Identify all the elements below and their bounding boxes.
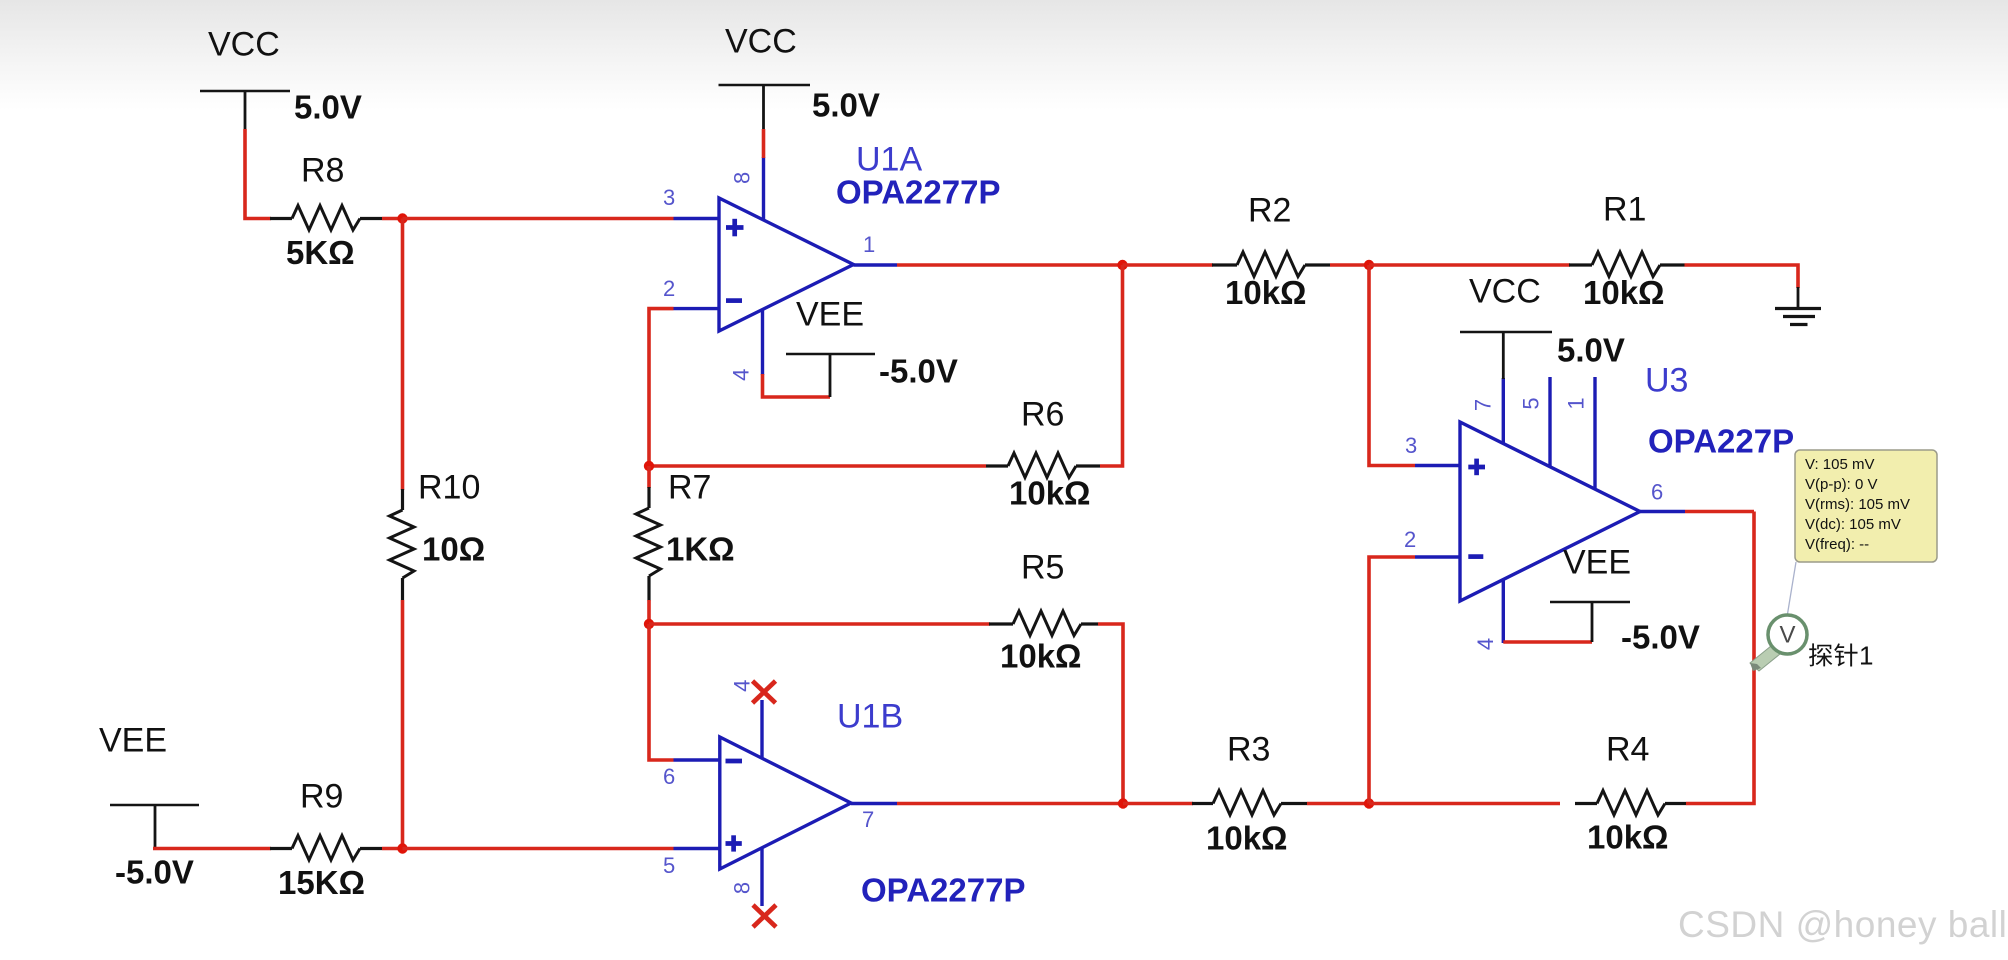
wire R6 to node E [649, 464, 986, 468]
svg-text:-5.0V: -5.0V [879, 353, 958, 390]
svg-text:15KΩ: 15KΩ [278, 864, 365, 901]
node G junction [1118, 798, 1128, 808]
svg-text:OPA227P: OPA227P [1648, 423, 1794, 460]
U1B pin 7 lead [851, 804, 897, 833]
wire U3 pin4 to VEE [1503, 640, 1592, 644]
svg-text:V(freq): --: V(freq): -- [1805, 536, 1869, 553]
probe leader line [1787, 562, 1796, 617]
wire node G to R3 [1123, 802, 1193, 806]
power VCC (U1A) [719, 23, 811, 131]
svg-text:2: 2 [1404, 527, 1416, 552]
svg-text:VCC: VCC [208, 26, 280, 64]
node E junction [644, 461, 654, 471]
svg-text:8: 8 [729, 172, 754, 184]
node F junction [644, 619, 654, 629]
resistor R10 [390, 489, 415, 600]
U1B pin 4 lead [730, 680, 762, 758]
wire R2 to node D [1330, 263, 1369, 267]
wire node D to R1 [1369, 263, 1570, 267]
svg-text:7: 7 [862, 807, 874, 832]
power VEE (U3) [1550, 544, 1631, 643]
node C junction [1117, 260, 1127, 270]
svg-text:V(dc): 105 mV: V(dc): 105 mV [1805, 516, 1901, 533]
svg-text:6: 6 [663, 764, 675, 789]
U3 pin 4 lead [1473, 580, 1503, 650]
svg-text:1: 1 [1859, 641, 1873, 671]
svg-text:10kΩ: 10kΩ [1583, 274, 1665, 311]
op-amp U3 [1460, 422, 1640, 601]
resistor R7 [636, 466, 661, 624]
power VEE (U1A) [786, 296, 875, 398]
U3 pin 7 lead [1471, 378, 1504, 444]
op-amp U1B [720, 737, 851, 869]
wire U1B output to node G [897, 802, 1123, 806]
node H junction [1364, 798, 1374, 808]
resistor R2 [1212, 252, 1330, 277]
wire R8 to node A [382, 217, 403, 221]
probe label 探针1 [1809, 641, 1873, 671]
svg-text:R2: R2 [1248, 192, 1291, 230]
svg-text:R8: R8 [301, 152, 344, 190]
svg-text:5.0V: 5.0V [812, 87, 880, 124]
resistor R9 [270, 836, 382, 861]
probe readout box [1795, 450, 1937, 562]
svg-text:5: 5 [1519, 397, 1544, 409]
probe V icon [1750, 615, 1807, 671]
U3 pin 1 lead [1564, 377, 1596, 488]
svg-text:CSDN @honey ball: CSDN @honey ball [1678, 904, 2007, 945]
U1A pin 2 lead [663, 276, 719, 309]
svg-text:1: 1 [863, 232, 875, 257]
wire node H to R4 [1369, 802, 1560, 806]
wire R3 to node H [1307, 802, 1369, 806]
U3 pin 3 lead [1405, 433, 1460, 466]
svg-text:2: 2 [663, 276, 675, 301]
node A junction [397, 213, 407, 223]
power VCC (U3) [1460, 273, 1552, 380]
no-connect X (U1B pin 8) [753, 905, 776, 927]
svg-text:R6: R6 [1021, 396, 1064, 434]
wire R4 to U3 output riser [1686, 512, 1754, 804]
resistor R6 [986, 453, 1100, 478]
svg-text:V: V [1779, 622, 1795, 649]
resistor R5 [989, 611, 1098, 636]
wire node C to R2 [1123, 263, 1214, 267]
svg-text:VCC: VCC [1469, 273, 1541, 311]
svg-text:10Ω: 10Ω [422, 531, 485, 568]
svg-text:10kΩ: 10kΩ [1225, 274, 1307, 311]
svg-text:V: 105 mV: V: 105 mV [1805, 456, 1874, 473]
resistor R8 [270, 206, 382, 231]
U1B pin 8 lead [730, 848, 762, 906]
wire node D to U3 pin3 [1369, 265, 1415, 466]
svg-text:8: 8 [730, 882, 755, 894]
U1B pin 5 lead [663, 849, 720, 879]
svg-text:R10: R10 [418, 469, 480, 507]
svg-text:OPA2277P: OPA2277P [836, 174, 1000, 211]
wire node F to R5 [649, 622, 990, 626]
U1A pin 4 lead [729, 309, 763, 381]
wire VCC to U1A pin8 [762, 129, 766, 158]
svg-text:3: 3 [1405, 433, 1417, 458]
ground [1775, 309, 1821, 325]
wire U3 pin6 to riser [1685, 510, 1754, 514]
node D junction [1364, 260, 1374, 270]
wire R10 to node B [401, 600, 405, 849]
svg-text:VCC: VCC [725, 23, 797, 61]
svg-text:4: 4 [730, 680, 755, 692]
svg-text:VEE: VEE [99, 722, 167, 760]
U1A pin 8 lead [729, 157, 763, 220]
power VEE (left) [99, 722, 199, 849]
svg-text:R1: R1 [1603, 191, 1646, 229]
wire VEE to R9 [153, 847, 271, 851]
svg-text:R5: R5 [1021, 549, 1064, 587]
wire node H to U3 pin2 [1369, 557, 1415, 804]
resistor R4 [1575, 791, 1686, 816]
svg-text:U1B: U1B [837, 698, 903, 736]
svg-text:V(p-p): 0 V: V(p-p): 0 V [1805, 476, 1878, 493]
U1B pin 6 lead [663, 760, 720, 789]
wire VCC to R8 [245, 129, 271, 219]
svg-text:1KΩ: 1KΩ [666, 531, 735, 568]
svg-text:4: 4 [1473, 638, 1498, 650]
svg-text:R3: R3 [1227, 731, 1270, 769]
svg-text:10kΩ: 10kΩ [1000, 638, 1082, 675]
wire node C to R6 [1100, 265, 1123, 466]
node B junction [397, 843, 407, 853]
wire node F to U1B pin6 [649, 624, 674, 760]
svg-text:R9: R9 [300, 778, 343, 816]
U3 pin 2 lead [1404, 527, 1460, 557]
svg-text:R7: R7 [668, 469, 711, 507]
wire node A to U1A pin3 [403, 217, 674, 221]
wire U1A output to node C [897, 263, 1123, 267]
svg-text:5.0V: 5.0V [294, 89, 362, 126]
svg-text:V(rms): 105 mV: V(rms): 105 mV [1805, 496, 1910, 513]
svg-text:4: 4 [729, 369, 754, 381]
svg-text:7: 7 [1471, 399, 1496, 411]
svg-text:5.0V: 5.0V [1557, 332, 1625, 369]
no-connect X (U1B pin 4) [753, 681, 776, 703]
svg-text:-5.0V: -5.0V [1621, 619, 1700, 656]
svg-text:6: 6 [1651, 480, 1663, 505]
svg-text:OPA2277P: OPA2277P [861, 872, 1025, 909]
U1A pin 1 lead [854, 232, 898, 265]
U3 pin 6 lead [1640, 480, 1685, 512]
svg-text:10kΩ: 10kΩ [1009, 475, 1091, 512]
wire node B to U1B pin5 [403, 847, 674, 851]
wire node A to R10 [401, 219, 405, 491]
wire R1 to ground [1685, 265, 1799, 309]
wire R5 to node G [1098, 624, 1123, 804]
resistor R1 [1569, 252, 1685, 277]
svg-text:R4: R4 [1606, 731, 1649, 769]
svg-text:VEE: VEE [796, 296, 864, 334]
svg-text:-5.0V: -5.0V [115, 854, 194, 891]
wire R9 to node B [382, 847, 403, 851]
U1A pin 3 lead [663, 185, 719, 219]
op-amp U1A [719, 198, 854, 331]
resistor R3 [1192, 791, 1307, 816]
svg-text:1: 1 [1564, 397, 1589, 409]
wire U1A pin2 to node E [649, 309, 674, 466]
svg-text:10kΩ: 10kΩ [1587, 819, 1669, 856]
wire U1A pin4 to VEE [763, 374, 831, 397]
svg-text:VEE: VEE [1563, 544, 1631, 582]
svg-text:3: 3 [663, 185, 675, 210]
svg-text:5KΩ: 5KΩ [286, 234, 355, 271]
U3 pin 5 lead [1519, 377, 1551, 466]
svg-text:5: 5 [663, 853, 675, 878]
svg-text:10kΩ: 10kΩ [1206, 820, 1288, 857]
power VCC (left) [200, 26, 290, 131]
svg-text:U3: U3 [1645, 362, 1688, 400]
